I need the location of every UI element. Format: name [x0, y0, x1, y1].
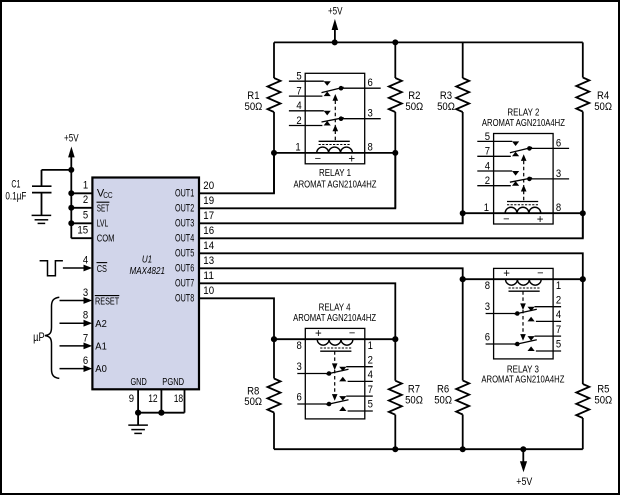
resistor R3 value label [437, 90, 455, 113]
svg-text:50Ω: 50Ω [434, 395, 452, 407]
wire RESET input arrow [60, 297, 93, 304]
relay 2 contact arm 2 [510, 178, 532, 182]
capacitor C1 [32, 186, 52, 215]
svg-text:10: 10 [203, 285, 214, 297]
svg-text:3: 3 [368, 108, 373, 120]
svg-text:OUT4: OUT4 [175, 233, 194, 245]
resistor R8 [268, 339, 281, 449]
junction R6/bottom bus [460, 446, 466, 452]
junction LVL [68, 220, 74, 226]
svg-text:RESET: RESET [95, 296, 120, 308]
U1 pin 12 stub [160, 389, 162, 412]
svg-text:C1: C1 [11, 179, 20, 191]
resistor R7 value label [405, 383, 423, 406]
relay 2 pin 6 stub (NO output) [529, 147, 569, 149]
relay 1 contact dot 2 (pin 3) [339, 116, 344, 121]
svg-text:8: 8 [297, 340, 302, 352]
svg-text:+5V: +5V [516, 476, 533, 488]
relay 1 actuator arrow 2 [333, 125, 339, 132]
svg-text:AROMAT AGN210A4HZ: AROMAT AGN210A4HZ [482, 117, 565, 129]
U1 pin 9 stub [137, 389, 139, 412]
svg-text:A0: A0 [95, 363, 107, 375]
svg-text:3: 3 [485, 301, 490, 313]
svg-text:GND: GND [130, 376, 147, 388]
svg-text:11: 11 [203, 270, 214, 282]
svg-text:MAX4821: MAX4821 [130, 265, 166, 277]
junction +5V/bus [332, 39, 338, 45]
svg-text:50Ω: 50Ω [405, 395, 423, 407]
svg-text:8: 8 [368, 142, 373, 154]
junction R2/bus [392, 39, 398, 45]
relay 2 coil polarity marks [503, 213, 544, 226]
capacitor C1 value label [5, 179, 26, 203]
svg-text:9: 9 [129, 393, 134, 405]
svg-text:50Ω: 50Ω [437, 101, 455, 113]
wire OUT3 to R3/relay2 coil- [199, 213, 463, 223]
svg-text:CS: CS [97, 263, 107, 275]
svg-text:8: 8 [556, 202, 561, 214]
wire relay1 coil row [274, 152, 395, 154]
wire SET pin 2 [71, 207, 92, 209]
svg-text:A1: A1 [95, 341, 107, 353]
ground symbol below U1 [128, 413, 148, 434]
relay 4 pin 2 stub (NC contact) [339, 367, 373, 372]
wire OUT2 to R2/relay1 coil+ [199, 153, 395, 208]
svg-text:4: 4 [368, 369, 373, 381]
junction R7/bottom bus [392, 446, 398, 452]
relay 4 coil [317, 339, 353, 345]
junction pin 12 ground [158, 410, 164, 416]
relay 2 pin 4 stub (NC contact) [477, 171, 519, 176]
svg-text:CC: CC [103, 191, 113, 200]
wire A2 input arrow [60, 320, 93, 327]
svg-text:COM: COM [97, 233, 115, 245]
svg-text:RELAY 1: RELAY 1 [319, 167, 351, 179]
relay 3 contact dot 1 (pin 3) [515, 311, 520, 316]
svg-text:+: + [537, 214, 544, 226]
relay 4 contact dot 1 (pin 3) [327, 371, 332, 376]
wire OUT8 to R8/relay4 coil+ [199, 298, 274, 339]
relay 2 actuator arrow 1 [521, 154, 527, 161]
svg-text:−: − [315, 153, 321, 165]
relay 4 coil polarity marks [315, 327, 355, 340]
junction relay2 pin1/R3 [460, 210, 466, 216]
node +5V top supply [328, 5, 343, 42]
resistor R5 value label [594, 383, 612, 406]
svg-text:R7: R7 [408, 383, 420, 395]
relay 3 coil polarity marks [503, 267, 543, 280]
svg-text:6: 6 [368, 77, 373, 89]
svg-text:50Ω: 50Ω [244, 396, 262, 408]
wire top +5V bus [274, 41, 583, 43]
wire OUT6 to R6/relay3 coil+ [199, 268, 463, 279]
svg-text:7: 7 [368, 384, 373, 396]
wire OUT1 to R1/relay1 [199, 153, 274, 193]
relay 3 pin 6 stub (common) [486, 343, 518, 345]
relay 1 coil core bars [319, 141, 350, 144]
relay RELAY 1 box [305, 73, 365, 164]
svg-text:2: 2 [485, 175, 490, 187]
relay 3 contact arm 1 [515, 309, 537, 314]
junction relay3 pin8/R6 [460, 276, 466, 282]
node +5V bottom supply [516, 449, 533, 488]
svg-text:+5V: +5V [328, 5, 343, 17]
svg-text:18: 18 [174, 393, 184, 405]
U1 pin name CS with overline [97, 263, 108, 275]
U1 pin name SET with overline [97, 202, 110, 214]
relay 1 pin 4 stub (NC contact) [289, 111, 331, 116]
relay 3 pin 7 stub (NC contact) [528, 336, 562, 341]
svg-text:+5V: +5V [64, 133, 79, 145]
wire LVL pin 5 [71, 222, 92, 224]
wire relay3 coil row [463, 278, 583, 280]
wire left rail to COM pin [71, 237, 92, 239]
resistor R8 value label [244, 386, 262, 408]
relay 3 pin 3 stub (common) [486, 313, 518, 315]
junction relay4 pin1/R7 [392, 336, 398, 342]
junction relay4 pin8/R8 [271, 336, 277, 342]
relay 3 pin 4 stub (NO contact) [528, 317, 562, 322]
resistor R1 value label [245, 90, 263, 113]
svg-text:5: 5 [556, 339, 561, 351]
svg-text:5: 5 [368, 399, 373, 411]
relay 3 coil core bars [509, 288, 540, 291]
relay 4 pin 4 stub (NO contact) [339, 377, 373, 382]
svg-text:13: 13 [203, 255, 214, 267]
svg-text:12: 12 [148, 393, 158, 405]
wire VCC pin 1 [71, 192, 92, 194]
svg-text:R5: R5 [597, 383, 609, 395]
relay 4 pin 3 stub (common) [297, 373, 329, 375]
relay 2 contact dot 1 (pin 6) [527, 146, 532, 151]
svg-text:4: 4 [296, 100, 301, 112]
svg-text:6: 6 [485, 332, 490, 344]
relay 4 actuator arrow 1 [332, 363, 338, 370]
svg-text:6: 6 [556, 137, 561, 149]
wire OUT4 to R4/relay2 coil+ [199, 213, 583, 238]
svg-text:1: 1 [556, 280, 561, 292]
svg-text:17: 17 [203, 210, 214, 222]
svg-text:20: 20 [203, 180, 214, 192]
junction pin 9 ground [135, 410, 141, 416]
svg-text:AROMAT AGN210A4HZ: AROMAT AGN210A4HZ [294, 179, 377, 191]
svg-text:7: 7 [83, 332, 88, 344]
svg-text:−: − [349, 327, 355, 339]
junction SET [68, 205, 74, 211]
relay 4 coil core bars [320, 348, 351, 351]
op-amp U1 MAX4821 IC body [92, 178, 199, 390]
wire CS input arrow [63, 265, 92, 272]
svg-text:SET: SET [97, 203, 110, 215]
wire C1 branch [42, 170, 72, 186]
relay 3 contact arm 2 [515, 340, 537, 345]
resistor R4 value label [594, 90, 612, 113]
relay 3 pin 5 stub (NO contact) [528, 346, 562, 351]
svg-text:4: 4 [83, 254, 88, 266]
U1 pin 18 stub [184, 389, 186, 412]
relay 4 pin 6 stub (common) [297, 403, 329, 405]
relay RELAY 4 box [305, 328, 365, 419]
resistor R2 value label [405, 90, 423, 113]
relay 4 actuator arrow 2 [332, 394, 338, 401]
junction relay1 pin1/R1 [271, 150, 277, 156]
relay 2 actuator dashed line [523, 161, 525, 201]
svg-text:OUT2: OUT2 [175, 203, 194, 215]
svg-text:5: 5 [485, 131, 490, 143]
relay 3 actuator arrow 2 [520, 334, 526, 341]
wire A0 input arrow [60, 365, 93, 372]
junction relay2 pin8/R4 [580, 210, 586, 216]
relay 2 pin 2 stub (common) [477, 181, 519, 186]
U1 pin name RESET with overline [95, 296, 120, 308]
svg-text:4: 4 [556, 309, 561, 321]
node +5V left supply [64, 133, 79, 239]
svg-text:3: 3 [556, 168, 561, 180]
relay 3 pin 2 stub (NC contact) [528, 307, 562, 312]
svg-text:OUT1: OUT1 [175, 188, 194, 200]
relay 2 coil [505, 207, 541, 213]
relay 3 actuator dashed line [522, 291, 524, 334]
svg-text:8: 8 [83, 310, 88, 322]
relay 2 contact arm 1 [510, 147, 532, 152]
svg-text:LVL: LVL [97, 218, 109, 230]
svg-text:OUT7: OUT7 [175, 278, 194, 290]
resistor R6 [456, 279, 469, 449]
svg-text:50Ω: 50Ω [405, 101, 423, 113]
svg-text:2: 2 [296, 115, 301, 127]
svg-text:7: 7 [485, 146, 490, 158]
relay 2 pin 5 stub (NC contact) [477, 141, 519, 146]
resistor R5 [576, 279, 589, 449]
svg-text:5: 5 [296, 71, 301, 83]
relay 2 pin 3 stub (NO output) [529, 178, 569, 180]
relay 1 pin 7 stub (common) [289, 92, 331, 97]
resistor R7 [389, 339, 402, 449]
relay 1 contact dot 1 (pin 6) [339, 86, 344, 91]
relay RELAY 3 box [494, 268, 553, 359]
svg-text:19: 19 [203, 195, 214, 207]
svg-text:PGND: PGND [162, 376, 184, 388]
U1 pin name VCC [97, 188, 113, 201]
resistor R1 [268, 42, 281, 193]
svg-text:0.1µF: 0.1µF [5, 190, 26, 202]
svg-text:1: 1 [368, 340, 373, 352]
relay 1 actuator dashed line [334, 101, 336, 141]
svg-text:U1: U1 [142, 253, 152, 265]
svg-text:2: 2 [556, 294, 561, 306]
svg-text:50Ω: 50Ω [594, 101, 612, 113]
relay 1 coil [317, 147, 353, 153]
relay 2 pin 7 stub (common) [477, 152, 519, 157]
svg-text:16: 16 [203, 225, 214, 237]
junction relay1 pin8/R2 [392, 150, 398, 156]
svg-text:OUT8: OUT8 [175, 293, 194, 305]
junction +5V/bottom bus [520, 446, 526, 452]
wire relay4 coil row [274, 338, 395, 340]
relay 1 coil polarity marks [315, 153, 356, 166]
svg-text:7: 7 [556, 324, 561, 336]
resistor R4 [576, 42, 589, 238]
svg-text:3: 3 [83, 287, 88, 299]
junction relay3 pin1/R5 [580, 276, 586, 282]
wire A1 input arrow [60, 343, 93, 350]
relay 4 contact arm 1 [326, 369, 348, 374]
svg-text:2: 2 [368, 354, 373, 366]
svg-text:−: − [537, 267, 543, 279]
resistor R2 [389, 42, 402, 208]
relay 3 contact dot 2 (pin 6) [515, 342, 520, 347]
svg-text:15: 15 [77, 225, 88, 237]
svg-text:A2: A2 [95, 318, 107, 330]
svg-text:AROMAT AGN210A4HZ: AROMAT AGN210A4HZ [293, 312, 376, 324]
relay 4 actuator dashed line [334, 351, 336, 394]
ground symbol at C1 [32, 215, 52, 223]
svg-text:+: + [503, 268, 510, 280]
relay 1 pin 6 stub (NO output) [341, 87, 381, 89]
svg-text:1: 1 [484, 202, 489, 214]
resistor R6 value label [434, 383, 452, 406]
relay 1 actuator arrow 1 [333, 94, 339, 101]
relay 1 pin 2 stub (common) [289, 121, 331, 126]
relay 3 coil [506, 279, 542, 285]
svg-text:7: 7 [296, 86, 301, 98]
relay 1 contact arm 2 [322, 118, 344, 122]
svg-text:8: 8 [485, 280, 490, 292]
svg-text:6: 6 [297, 392, 302, 404]
junction VCC [68, 190, 74, 196]
svg-text:1: 1 [295, 142, 300, 154]
junction C1 branch [68, 167, 74, 173]
svg-text:OUT3: OUT3 [175, 218, 194, 230]
svg-text:µP: µP [33, 332, 45, 344]
relay 4 pin 7 stub (NC contact) [339, 396, 373, 401]
microprocessor brace [45, 297, 59, 378]
svg-text:1: 1 [83, 180, 88, 192]
svg-text:−: − [503, 213, 509, 225]
svg-text:OUT5: OUT5 [175, 248, 194, 260]
resistor R3 [456, 42, 469, 223]
svg-text:5: 5 [83, 210, 88, 222]
svg-text:50Ω: 50Ω [594, 395, 612, 407]
relay 2 actuator arrow 2 [521, 185, 527, 192]
relay 4 contact dot 2 (pin 6) [327, 402, 332, 407]
relay 4 contact arm 2 [326, 400, 348, 405]
relay 3 actuator arrow 1 [520, 303, 526, 310]
svg-text:OUT6: OUT6 [175, 263, 194, 275]
svg-text:4: 4 [485, 160, 490, 172]
relay 2 coil core bars [507, 202, 538, 205]
svg-text:6: 6 [83, 355, 88, 367]
relay 1 contact arm 1 [322, 87, 344, 92]
wire OUT7 to R7/relay4 coil- [199, 283, 395, 339]
relay 4 pin 5 stub (NO contact) [339, 406, 373, 411]
pulse waveform symbol at CS [40, 261, 63, 276]
svg-text:+: + [348, 154, 355, 166]
wire ground tie [138, 412, 184, 414]
relay 1 pin 5 stub (NC contact) [289, 81, 331, 86]
svg-text:R6: R6 [437, 383, 449, 395]
svg-text:2: 2 [83, 194, 88, 206]
svg-text:3: 3 [297, 361, 302, 373]
wire bottom +5V bus [274, 448, 583, 450]
wire relay2 coil row [463, 212, 583, 214]
svg-text:50Ω: 50Ω [245, 101, 263, 113]
relay RELAY 2 box [494, 134, 553, 225]
svg-text:AROMAT AGN210A4HZ: AROMAT AGN210A4HZ [481, 374, 564, 386]
svg-text:14: 14 [203, 240, 214, 252]
relay 2 contact dot 2 (pin 3) [527, 177, 532, 182]
svg-text:+: + [315, 328, 322, 340]
relay 1 pin 3 stub (NO output) [341, 118, 381, 120]
wire OUT5 to R5/relay3 coil- [199, 253, 583, 279]
